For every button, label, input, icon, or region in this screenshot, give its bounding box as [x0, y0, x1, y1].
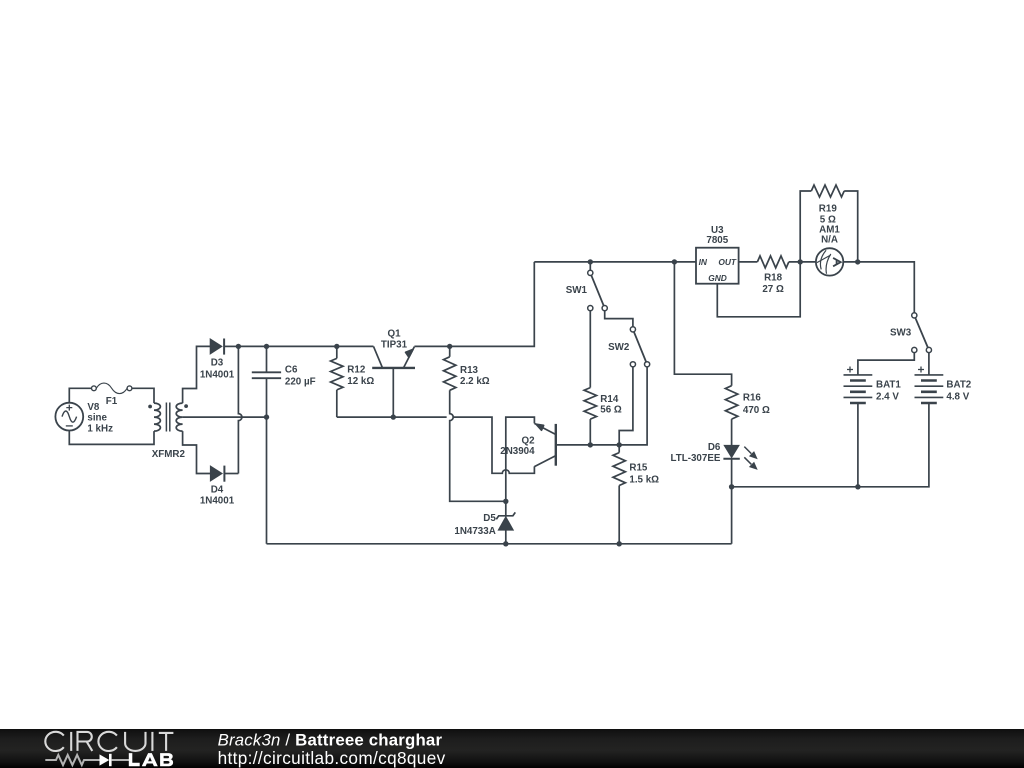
- wire bottom rail: [267, 543, 732, 545]
- junction D5 bottom rail: [503, 541, 508, 546]
- ammeter AM1: [816, 248, 843, 275]
- svg-text:Brack3n / Battreee charghar: Brack3n / Battreee charghar: [218, 730, 443, 749]
- wire R15 bottom lead: [618, 486, 620, 544]
- junction R14 bottom: [588, 442, 593, 447]
- wire D4 cathode to corner: [224, 473, 238, 475]
- voltage source V8: [55, 403, 83, 431]
- wire D5 bottom lead: [505, 530, 507, 544]
- wire R14 bottom lead: [589, 419, 591, 445]
- junction R13 top: [447, 344, 452, 349]
- zener diode D5 1N4733A: [496, 512, 515, 530]
- junction C6 bottom center tap: [264, 414, 269, 419]
- junction Q1 base node: [391, 414, 396, 419]
- wire R13 top lead: [449, 346, 451, 356]
- wire R13 bottom with hop: [450, 390, 506, 501]
- wire D5 leads: [505, 501, 507, 517]
- junction D5 top: [503, 499, 508, 504]
- wire secondary bottom to D4: [183, 431, 211, 473]
- resistor R12: [331, 358, 343, 390]
- wire U3 GND loop: [717, 262, 800, 317]
- junction R15 bottom rail: [617, 541, 622, 546]
- wire SW3 to BAT2: [928, 353, 930, 375]
- switch SW2: [630, 327, 649, 367]
- wire R15 top lead: [618, 445, 620, 453]
- wire Q1 emitter rail: [414, 262, 534, 347]
- wire R19 right leg: [844, 191, 858, 262]
- svg-text:http://circuitlab.com/cq8quev: http://circuitlab.com/cq8quev: [218, 748, 446, 768]
- resistor R13: [444, 357, 456, 391]
- wire R18 to junction: [789, 261, 816, 263]
- junction C6 top: [264, 344, 269, 349]
- wire center tap to C6: [183, 416, 267, 418]
- wire top rail to U3: [534, 261, 696, 263]
- junction SW1 top: [588, 259, 593, 264]
- diode D3: [210, 339, 224, 355]
- switch SW1: [588, 262, 608, 311]
- wire top rail D3 to Q1: [238, 345, 373, 347]
- wire Q2 base row: [556, 367, 647, 445]
- CircuitLab logo resistor wire: [45, 755, 99, 765]
- transistor Q1 TIP31: [372, 346, 415, 368]
- resistor R15: [613, 453, 625, 486]
- junction D3 cathode rail: [236, 344, 241, 349]
- wire BAT1 bottom: [857, 403, 859, 487]
- wire BAT2 bottom: [732, 403, 929, 487]
- CircuitLab logo diode: [100, 754, 110, 765]
- wire R14 top lead: [589, 311, 591, 388]
- wire SW3 to BAT1: [858, 353, 914, 375]
- battery BAT2: [915, 367, 944, 404]
- junction R18 output: [798, 259, 803, 264]
- wire Q2 emitter to D5 node: [506, 417, 535, 501]
- wire V8 top to fuse F1: [69, 388, 91, 402]
- junction U3 branch: [672, 259, 677, 264]
- battery BAT1: [844, 367, 873, 404]
- transformer XFMR2: [148, 403, 188, 432]
- junction R12 top: [334, 344, 339, 349]
- wire C6 down to bottom rail: [266, 417, 268, 544]
- wire D3 cathode to junction: [224, 345, 238, 347]
- wire R16 to D6: [731, 419, 733, 445]
- resistor R14: [584, 388, 596, 420]
- wire SW2 left throw down: [619, 367, 633, 445]
- LED D6 LTL-307EE: [723, 445, 757, 470]
- transistor Q2 2N3904: [534, 423, 555, 466]
- capacitor C6: [252, 346, 281, 417]
- wire branch to R16: [674, 262, 731, 386]
- wire R19 left leg: [800, 191, 811, 262]
- wire V8 bottom to transformer primary: [69, 431, 154, 445]
- wire R12 bottom lead: [336, 390, 338, 417]
- diode D4: [210, 466, 224, 482]
- CircuitLab logo CIRCUIT letters: [45, 732, 173, 751]
- resistor R19: [811, 185, 844, 197]
- wire base row with hop over R13: [337, 417, 535, 473]
- wire SW1 throw to SW2: [605, 311, 633, 327]
- footer bar: [0, 729, 1024, 768]
- switch SW3: [912, 313, 932, 353]
- resistor R18: [757, 256, 788, 268]
- CircuitLab logo LAB text: [129, 753, 173, 766]
- junction BAT1 bottom: [855, 484, 860, 489]
- wire secondary top to D3: [183, 346, 211, 403]
- wire Q1 base: [392, 368, 394, 417]
- wire AM1 to SW3: [843, 262, 914, 313]
- wire U3 OUT to R18: [739, 261, 758, 263]
- junction R15 top: [617, 442, 622, 447]
- resistor R16: [725, 386, 737, 419]
- wire fuse to transformer primary: [132, 388, 154, 403]
- regulator U3 7805: [696, 248, 739, 284]
- wire D6 to battery rail: [731, 459, 733, 544]
- wire D3 output down to D4 with hop: [238, 346, 242, 473]
- junction R19 right: [855, 259, 860, 264]
- wire R12 leads: [336, 346, 338, 358]
- fuse F1: [92, 383, 132, 394]
- junction D6 bottom: [729, 484, 734, 489]
